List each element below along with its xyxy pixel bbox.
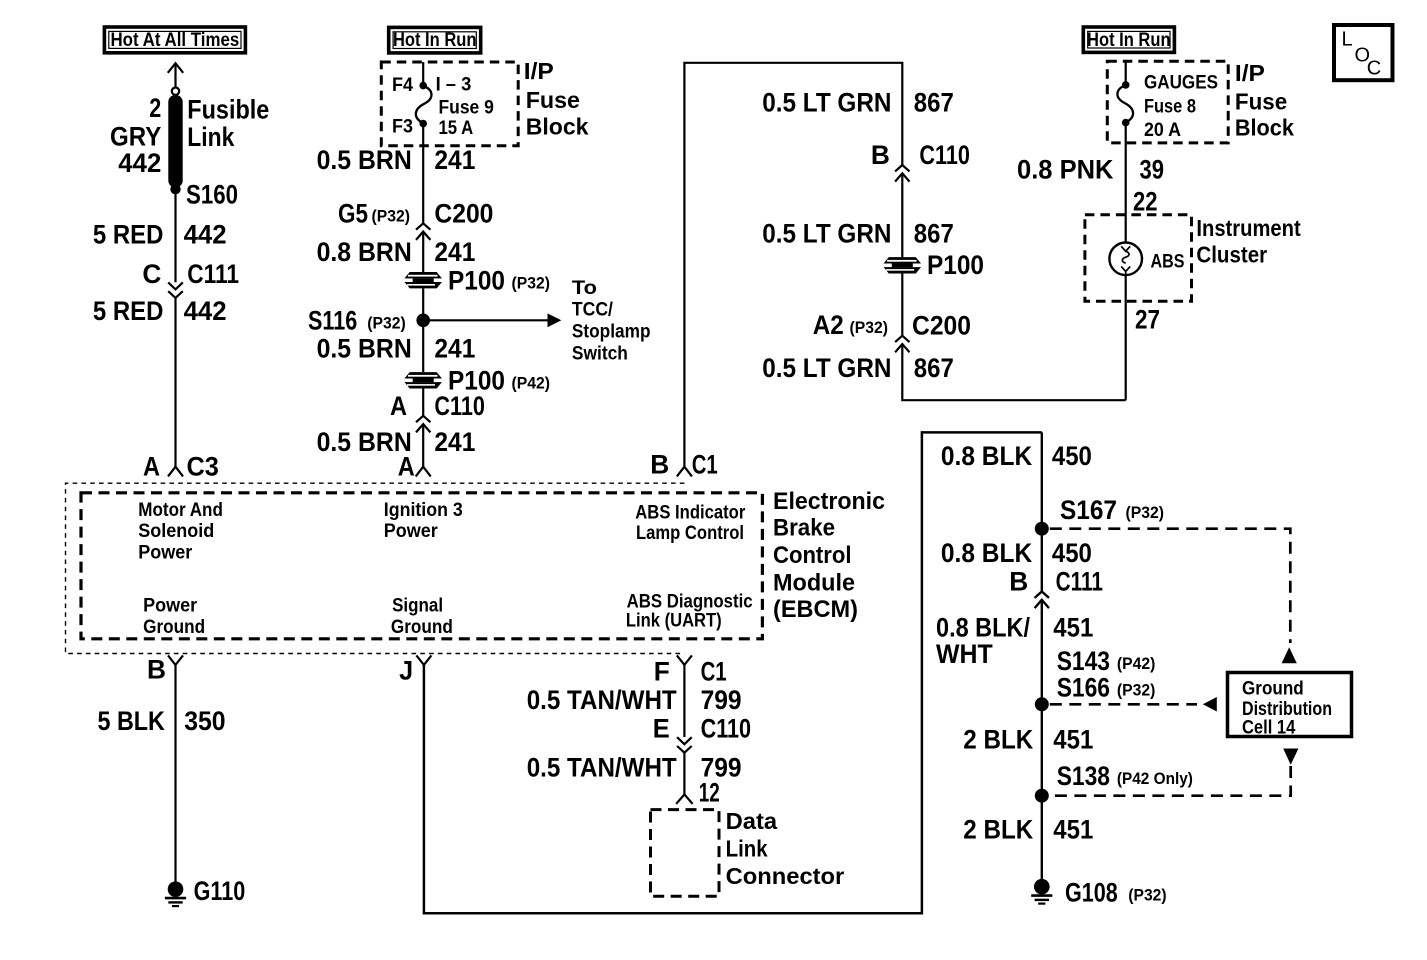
splice S116 dot <box>416 314 430 328</box>
grommet P100 (P32) <box>403 272 443 288</box>
svg-text:S160: S160 <box>186 180 238 210</box>
svg-text:Link: Link <box>726 835 768 861</box>
dashed reference S166 to ground distribution <box>1050 703 1197 706</box>
svg-text:442: 442 <box>118 148 161 178</box>
svg-text:22: 22 <box>1133 187 1158 217</box>
svg-text:451: 451 <box>1053 612 1093 642</box>
wire 442 segment S160 to C111 <box>174 189 176 282</box>
svg-text:867: 867 <box>914 353 954 383</box>
svg-text:0.8 BLK: 0.8 BLK <box>941 538 1033 568</box>
EBCM pin A/C3 <box>168 467 183 477</box>
svg-text:Instrument: Instrument <box>1196 215 1300 241</box>
svg-text:Block: Block <box>526 113 590 139</box>
splice S166 dot <box>1035 697 1049 711</box>
splice S167 dot <box>1035 522 1049 536</box>
svg-text:2 BLK: 2 BLK <box>963 814 1034 844</box>
svg-text:G110: G110 <box>194 876 246 906</box>
wire 867 C200 to instrument cluster <box>902 344 1125 400</box>
svg-text:Link (UART): Link (UART) <box>626 611 722 632</box>
wire 867 EBCM B/C1 up and across <box>684 63 902 467</box>
wire 350 B to G110 <box>174 665 176 882</box>
svg-text:Power: Power <box>384 521 439 542</box>
wire 241 P100 to C110 <box>422 389 424 416</box>
svg-text:5 RED: 5 RED <box>93 296 164 326</box>
wire 442 segment C111 to EBCM <box>174 298 176 467</box>
fuse 8 bottom terminal <box>1122 119 1130 127</box>
svg-text:Control: Control <box>773 542 852 569</box>
fusible link element <box>168 95 182 188</box>
svg-text:0.5 BRN: 0.5 BRN <box>317 333 412 363</box>
svg-text:S143: S143 <box>1057 646 1110 676</box>
IP fuse block dashed box (fuse 9) <box>381 62 518 146</box>
svg-text:799: 799 <box>701 685 742 715</box>
svg-text:5 BLK: 5 BLK <box>98 706 166 736</box>
svg-text:P100: P100 <box>927 250 984 280</box>
svg-text:(P32): (P32) <box>372 208 411 226</box>
svg-text:867: 867 <box>914 219 954 249</box>
svg-text:To: To <box>572 278 597 299</box>
svg-text:20 A: 20 A <box>1144 120 1181 141</box>
EBCM inner dashed box <box>81 493 762 639</box>
data link connector dashed box <box>651 810 720 897</box>
svg-text:P100: P100 <box>448 265 505 295</box>
branch wire to TCC/stoplamp switch <box>423 319 548 321</box>
svg-text:WHT: WHT <box>936 639 993 669</box>
svg-text:C200: C200 <box>434 198 493 228</box>
svg-text:F4: F4 <box>392 75 413 96</box>
svg-text:Hot At All Times: Hot At All Times <box>110 30 239 51</box>
svg-text:S116: S116 <box>308 305 357 335</box>
svg-text:12: 12 <box>699 778 720 808</box>
wire into fuse 8 <box>1125 61 1127 84</box>
svg-text:241: 241 <box>434 427 475 457</box>
wire 39 fuse to cluster <box>1125 123 1127 243</box>
svg-text:0.5 BRN: 0.5 BRN <box>317 145 412 175</box>
svg-text:0.8 BLK/: 0.8 BLK/ <box>936 612 1030 642</box>
svg-text:Power: Power <box>138 542 193 563</box>
svg-text:5 RED: 5 RED <box>93 219 164 249</box>
grommet P100 (P42) <box>403 372 443 388</box>
connector C200 in-line symbol (right) <box>895 336 909 353</box>
connector C110 in-line symbol <box>416 416 430 433</box>
connector C110 in-line symbol (dlc) <box>677 737 692 753</box>
svg-text:(P42 Only): (P42 Only) <box>1117 770 1193 788</box>
instrument cluster dashed box <box>1085 215 1192 301</box>
arrowhead up into ground distribution <box>1282 647 1297 663</box>
svg-text:I – 3: I – 3 <box>436 74 472 95</box>
svg-text:241: 241 <box>434 237 475 267</box>
svg-text:Ignition 3: Ignition 3 <box>384 500 463 521</box>
LOC logo box <box>1334 25 1393 80</box>
svg-text:350: 350 <box>184 706 225 736</box>
svg-text:0.5 LT GRN: 0.5 LT GRN <box>762 353 891 383</box>
dashed reference S167 to ground distribution <box>1050 529 1291 643</box>
wire into fuse 9 <box>422 62 424 85</box>
svg-text:Switch: Switch <box>572 344 628 365</box>
EBCM pin B bottom <box>168 655 183 665</box>
svg-text:I/P: I/P <box>524 58 554 84</box>
fuse 9 terminal F3 <box>419 120 427 128</box>
svg-text:(P32): (P32) <box>512 274 551 292</box>
svg-text:Connector: Connector <box>726 863 845 889</box>
svg-text:G5: G5 <box>338 198 368 228</box>
svg-text:Stoplamp: Stoplamp <box>572 322 651 343</box>
svg-text:ABS: ABS <box>1151 251 1185 272</box>
svg-text:450: 450 <box>1052 441 1092 471</box>
svg-text:A2: A2 <box>813 310 844 340</box>
svg-text:Hot In Run: Hot In Run <box>393 30 477 51</box>
svg-text:S138: S138 <box>1057 761 1110 791</box>
ground G108 <box>1031 879 1052 904</box>
svg-text:0.8 PNK: 0.8 PNK <box>1017 155 1114 185</box>
svg-text:L: L <box>1342 29 1353 51</box>
svg-text:A: A <box>143 451 160 481</box>
svg-text:0.5 BRN: 0.5 BRN <box>317 427 412 457</box>
wire 241 fuse to C200 <box>422 124 424 224</box>
svg-text:2: 2 <box>149 93 161 123</box>
svg-text:442: 442 <box>184 296 227 326</box>
svg-text:(P42): (P42) <box>1117 655 1156 673</box>
EBCM pin F/C1 bottom <box>677 655 692 665</box>
arrow up to Hot At All Times <box>168 63 183 87</box>
svg-text:(P32): (P32) <box>1117 681 1156 699</box>
svg-text:B: B <box>1009 567 1028 597</box>
svg-text:Block: Block <box>1235 115 1295 141</box>
ground distribution cell box <box>1228 673 1352 737</box>
svg-text:Fuse: Fuse <box>526 87 580 113</box>
svg-text:S167: S167 <box>1060 495 1117 525</box>
svg-text:Fusible: Fusible <box>187 95 269 125</box>
svg-text:241: 241 <box>434 333 475 363</box>
dashed reference S138 to ground distribution <box>1050 766 1291 796</box>
svg-text:ABS Diagnostic: ABS Diagnostic <box>627 591 753 612</box>
wire 867 cluster down to corner <box>1125 275 1127 400</box>
svg-text:F: F <box>654 656 670 686</box>
svg-text:Signal: Signal <box>392 596 443 617</box>
grommet P100 (867) <box>882 257 922 273</box>
svg-text:Cell 14: Cell 14 <box>1242 718 1296 739</box>
arrowhead to TCC/stoplamp switch <box>548 313 562 327</box>
EBCM outer dashed boundary <box>66 483 685 653</box>
svg-text:Link: Link <box>187 122 234 152</box>
arrowhead at ground distribution (S166) <box>1203 697 1217 712</box>
svg-text:451: 451 <box>1053 724 1093 754</box>
svg-text:Ground: Ground <box>391 617 453 638</box>
svg-text:0.5 LT GRN: 0.5 LT GRN <box>762 219 891 249</box>
svg-text:Ground: Ground <box>1242 679 1304 700</box>
svg-text:C1: C1 <box>692 450 718 480</box>
fuse 9 element <box>416 86 432 123</box>
EBCM pin J bottom <box>416 655 431 665</box>
svg-text:Data: Data <box>726 808 778 834</box>
wire 799 F/C1 down <box>683 665 685 737</box>
svg-text:C: C <box>142 259 161 289</box>
EBCM pin A ignition <box>416 467 431 477</box>
wire 241 P100 to P100 <box>422 288 424 372</box>
svg-text:A: A <box>390 391 407 421</box>
svg-text:Fuse 9: Fuse 9 <box>439 98 494 119</box>
svg-text:2 BLK: 2 BLK <box>963 724 1034 754</box>
ground G110 <box>165 881 186 906</box>
svg-text:C1: C1 <box>701 656 727 686</box>
svg-text:GRY: GRY <box>110 122 161 152</box>
svg-text:C110: C110 <box>434 391 485 421</box>
svg-text:C111: C111 <box>187 259 239 289</box>
svg-text:G108: G108 <box>1065 878 1118 908</box>
wire 867 P100 to C200 <box>901 273 903 336</box>
svg-text:451: 451 <box>1053 814 1093 844</box>
svg-text:Ground: Ground <box>143 617 205 638</box>
fuse 8 element <box>1117 85 1133 122</box>
svg-text:E: E <box>653 714 670 744</box>
header box Hot In Run <box>389 27 481 53</box>
svg-text:0.8 BLK: 0.8 BLK <box>941 441 1033 471</box>
connector C111 in-line symbol <box>168 282 183 298</box>
svg-text:S166: S166 <box>1057 672 1110 702</box>
arrowhead down from ground distribution <box>1283 749 1298 765</box>
svg-text:0.5 LT GRN: 0.5 LT GRN <box>762 87 891 117</box>
svg-text:241: 241 <box>434 145 475 175</box>
header box Hot In Run (right) <box>1083 27 1174 52</box>
wire signal ground J route <box>424 432 1042 913</box>
svg-text:15 A: 15 A <box>439 118 474 139</box>
header box Hot At All Times <box>104 27 245 53</box>
EBCM pin B/C1 <box>677 467 692 477</box>
svg-text:Power: Power <box>143 596 198 617</box>
svg-text:Electronic: Electronic <box>773 488 885 515</box>
IP fuse block dashed box (fuse 8) <box>1107 61 1228 143</box>
svg-text:I/P: I/P <box>1235 60 1265 86</box>
svg-text:C3: C3 <box>187 451 219 481</box>
svg-text:(EBCM): (EBCM) <box>773 596 858 623</box>
connector C200 in-line symbol <box>416 223 430 240</box>
svg-text:B: B <box>650 450 669 480</box>
svg-text:0.8 BRN: 0.8 BRN <box>317 237 412 267</box>
svg-text:(P32): (P32) <box>367 314 406 332</box>
svg-text:Brake: Brake <box>773 514 835 541</box>
svg-text:0.5 TAN/WHT: 0.5 TAN/WHT <box>527 685 678 715</box>
svg-text:C110: C110 <box>701 714 752 744</box>
svg-text:J: J <box>399 655 413 685</box>
svg-text:(P42): (P42) <box>512 374 551 392</box>
DLC terminal chevron <box>676 794 692 804</box>
svg-text:TCC/: TCC/ <box>572 299 614 320</box>
ABS indicator lamp <box>1109 242 1142 275</box>
svg-text:0.5 TAN/WHT: 0.5 TAN/WHT <box>527 752 678 782</box>
svg-text:Hot In Run: Hot In Run <box>1087 30 1171 51</box>
fusible link top terminal circle <box>172 88 179 95</box>
svg-text:(P32): (P32) <box>850 319 889 337</box>
svg-text:Module: Module <box>773 569 855 596</box>
svg-text:B: B <box>871 140 890 170</box>
svg-text:(P32): (P32) <box>1126 504 1165 522</box>
svg-text:Fuse: Fuse <box>1235 89 1287 115</box>
splice S138 dot <box>1035 789 1049 803</box>
connector C110 in-line symbol (right) <box>895 165 909 182</box>
svg-text:B: B <box>147 654 166 684</box>
svg-text:Motor And: Motor And <box>138 500 223 521</box>
connector C111 in-line symbol (right) <box>1035 592 1049 609</box>
svg-text:442: 442 <box>184 219 227 249</box>
fuse 9 terminal F4 <box>419 82 427 90</box>
wire 451 S166 to S138 <box>1041 704 1043 795</box>
svg-text:27: 27 <box>1135 305 1160 335</box>
svg-text:C200: C200 <box>912 311 971 341</box>
svg-text:GAUGES: GAUGES <box>1144 72 1218 93</box>
svg-text:ABS Indicator: ABS Indicator <box>635 502 746 523</box>
svg-text:867: 867 <box>914 87 954 117</box>
svg-text:Lamp Control: Lamp Control <box>636 523 744 544</box>
wire 799 C110 to DLC <box>683 753 685 795</box>
svg-text:Fuse 8: Fuse 8 <box>1144 97 1196 118</box>
svg-text:39: 39 <box>1140 155 1165 185</box>
svg-text:Cluster: Cluster <box>1196 241 1267 267</box>
svg-text:C: C <box>1367 58 1381 80</box>
wire 451 S138 to G108 <box>1041 796 1043 879</box>
svg-text:Solenoid: Solenoid <box>138 521 214 542</box>
svg-text:C110: C110 <box>919 140 970 170</box>
fuse 8 top terminal <box>1122 81 1130 89</box>
svg-text:C111: C111 <box>1056 567 1103 597</box>
wire 450 down to C111 <box>1041 432 1043 591</box>
svg-text:450: 450 <box>1052 538 1092 568</box>
splice S160 dot <box>170 184 180 194</box>
svg-text:F3: F3 <box>392 116 413 137</box>
svg-text:(P32): (P32) <box>1128 886 1166 904</box>
